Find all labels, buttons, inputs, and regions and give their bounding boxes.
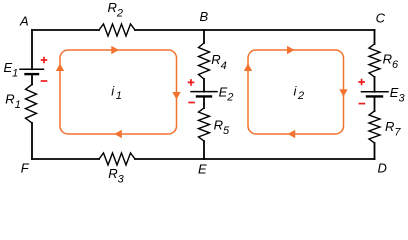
wire R6 to E3 — [374, 77, 376, 92]
wire left A to E1 — [31, 30, 33, 69]
battery E2 long plate — [191, 91, 217, 93]
wire bottom F to R3 — [32, 158, 99, 160]
svg-text:B: B — [200, 9, 209, 24]
svg-text:R2: R2 — [108, 0, 124, 19]
svg-text:E: E — [198, 161, 207, 176]
E2 minus sign — [188, 102, 195, 104]
wire R5 to E — [203, 141, 205, 159]
wire E2 to R5 — [203, 96, 205, 108]
resistor R7 — [369, 111, 380, 143]
loop i1 arrow bottom (left) — [114, 130, 122, 138]
loop i2 arrow top (right) — [287, 46, 295, 54]
svg-text:C: C — [376, 10, 386, 25]
battery E1 short plate — [26, 73, 39, 75]
E1 minus sign — [41, 80, 48, 82]
svg-text:R1: R1 — [5, 91, 21, 111]
loop i2 arrow left (up) — [244, 64, 252, 72]
E1 plus sign — [41, 57, 48, 64]
svg-text:R3: R3 — [108, 166, 124, 186]
loop i1 arrow left (up) — [56, 64, 64, 72]
svg-text:R5: R5 — [214, 117, 230, 137]
svg-text:F: F — [21, 161, 30, 176]
loop i2 arrow bottom (left) — [288, 130, 296, 138]
battery E1 long plate — [20, 68, 44, 70]
mesh current loop i1 — [60, 50, 177, 134]
svg-text:E2: E2 — [219, 84, 234, 103]
svg-text:R6: R6 — [383, 52, 399, 71]
resistor R1 — [26, 85, 37, 124]
wire R7 to D — [374, 143, 376, 159]
svg-text:A: A — [19, 14, 29, 29]
wire R1 to F — [31, 123, 33, 159]
resistor R5 — [199, 108, 210, 141]
wire bottom R3 to D through node E — [135, 158, 375, 160]
svg-text:R7: R7 — [385, 119, 401, 139]
wire C to R6 — [374, 30, 376, 44]
wire E1 to R1 — [31, 74, 33, 84]
E2 plus sign — [188, 79, 195, 86]
battery E2 short plate — [197, 95, 211, 97]
battery E3 short plate — [367, 95, 382, 97]
battery E3 long plate — [362, 91, 389, 93]
loop i2 arrow right (down) — [339, 89, 347, 97]
loop i1 arrow right (down) — [172, 92, 180, 100]
E3 minus sign — [359, 103, 366, 105]
resistor R3 — [99, 153, 135, 165]
wire top R2 to C through node B — [135, 29, 375, 31]
mesh current loop i2 — [248, 50, 344, 134]
svg-text:i1: i1 — [111, 83, 122, 101]
resistor R2 — [99, 24, 135, 36]
wire B to R4 — [203, 30, 205, 43]
svg-text:E3: E3 — [390, 85, 406, 104]
wire E3 to R7 — [374, 96, 376, 111]
loop i1 arrow top (right) — [111, 46, 119, 54]
E3 plus sign — [358, 79, 365, 86]
wire top A to R2 — [32, 29, 99, 31]
wire R4 to E2 — [203, 79, 205, 92]
svg-text:E1: E1 — [4, 60, 19, 80]
resistor R6 — [369, 44, 380, 77]
svg-text:D: D — [378, 161, 387, 176]
resistor R4 — [199, 43, 210, 79]
svg-text:R4: R4 — [211, 52, 227, 72]
svg-text:i2: i2 — [294, 83, 305, 101]
